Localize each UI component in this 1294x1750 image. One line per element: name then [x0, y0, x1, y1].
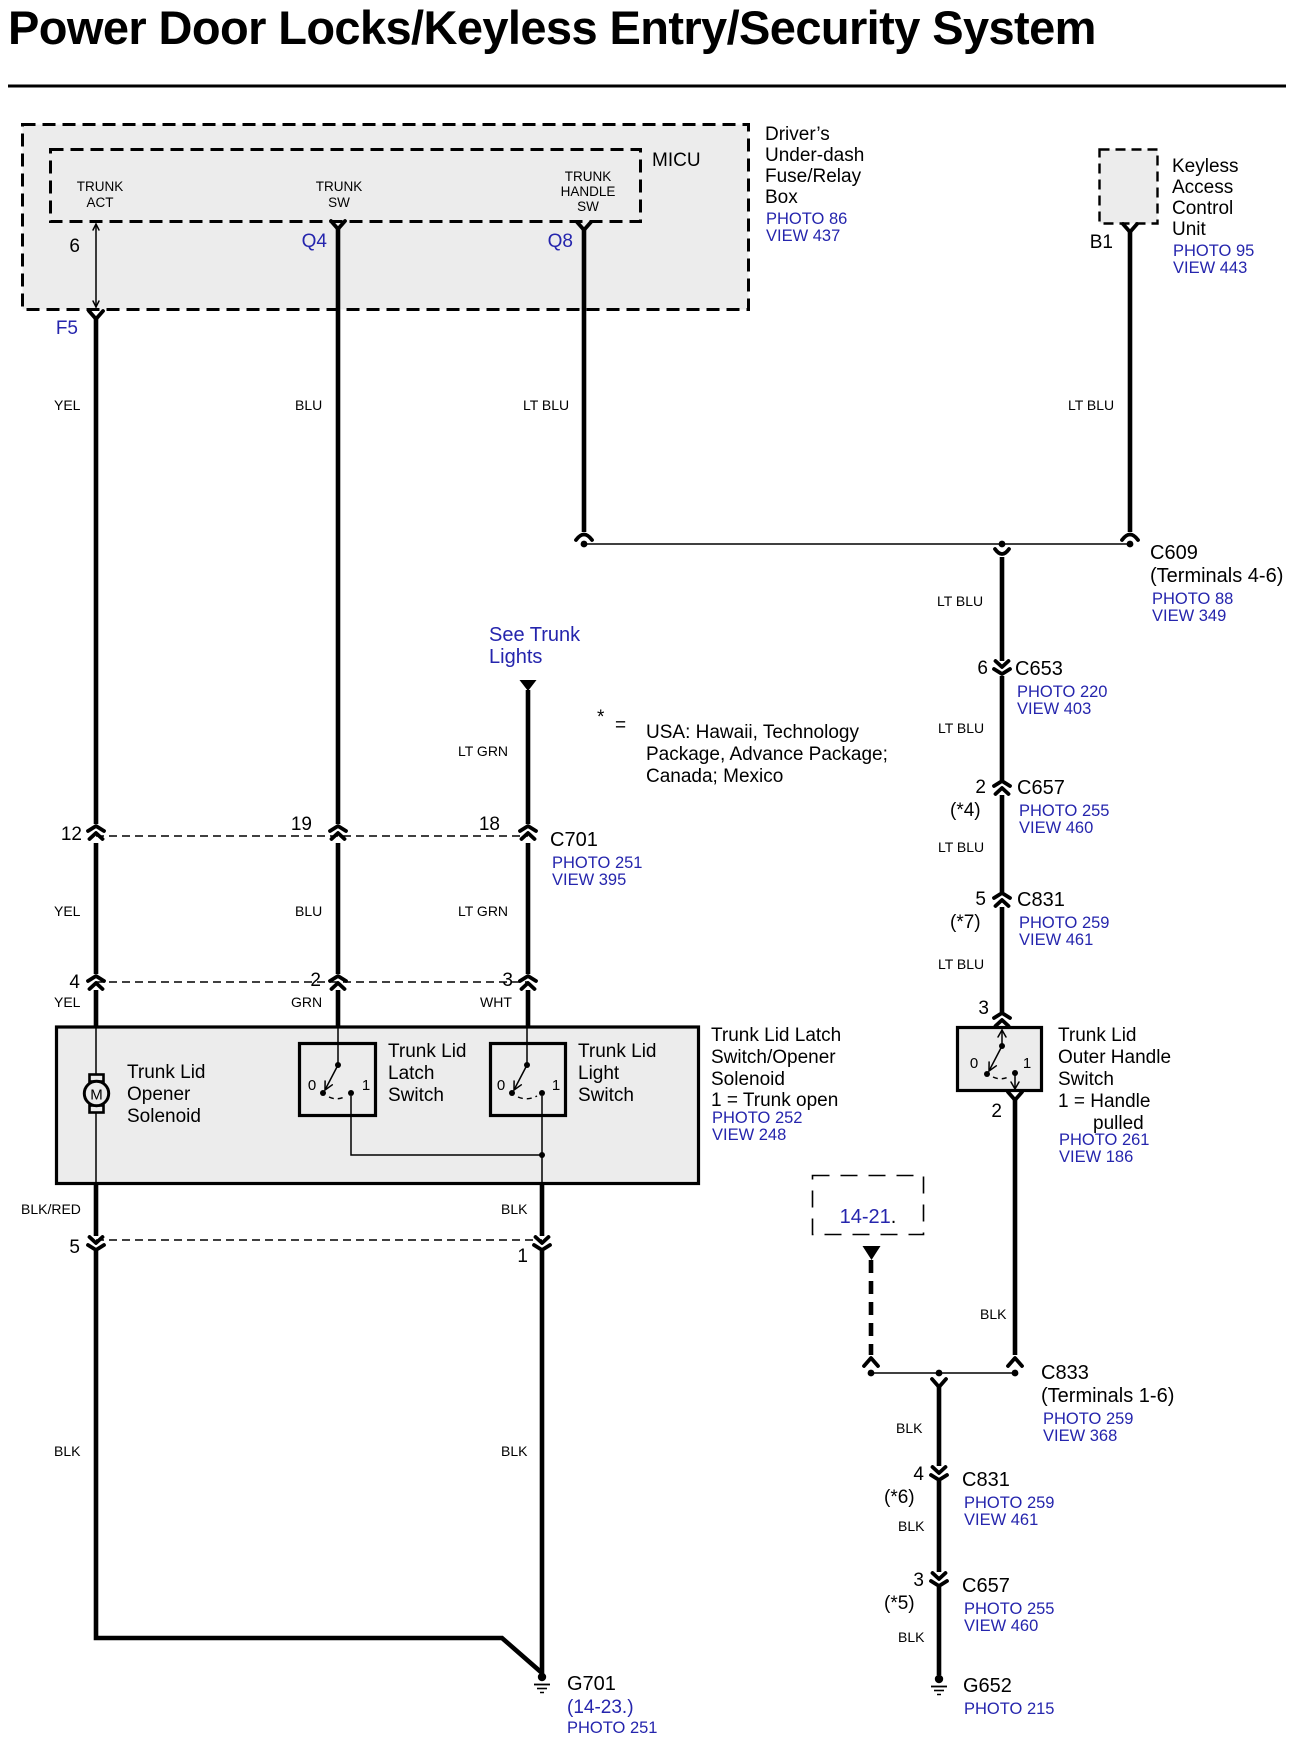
svg-text:VIEW 349: VIEW 349 — [1152, 607, 1226, 625]
svg-text:PHOTO 86: PHOTO 86 — [766, 210, 847, 228]
svg-text:TRUNK: TRUNK — [77, 179, 124, 194]
connector Q8 (Y) — [577, 222, 591, 230]
node C833 junction line — [871, 1372, 1015, 1374]
svg-text:PHOTO 88: PHOTO 88 — [1152, 590, 1233, 608]
svg-text:(Terminals 4-6): (Terminals 4-6) — [1150, 565, 1283, 587]
block reference 14-21 box — [813, 1176, 924, 1235]
wire BLU column — [336, 229, 341, 824]
svg-text:PHOTO 251: PHOTO 251 — [567, 1719, 657, 1737]
C701 dashed line — [96, 835, 528, 837]
wire BLK from handle switch — [1013, 1100, 1018, 1355]
svg-text:Switch: Switch — [578, 1085, 634, 1106]
svg-text:VIEW 460: VIEW 460 — [964, 1617, 1038, 1635]
svg-text:Trunk Lid Latch: Trunk Lid Latch — [711, 1025, 841, 1046]
handle switch common node — [999, 1043, 1005, 1049]
svg-text:1 = Trunk open: 1 = Trunk open — [711, 1090, 838, 1111]
svg-text:LT GRN: LT GRN — [458, 743, 508, 759]
connector pin 5 — [90, 1237, 103, 1243]
svg-text:BLU: BLU — [295, 903, 322, 919]
svg-text:LT BLU: LT BLU — [938, 956, 984, 972]
latch switch wire out — [351, 1096, 542, 1155]
wire LT GRN column — [526, 690, 531, 824]
svg-text:C657: C657 — [962, 1575, 1010, 1597]
svg-text:PHOTO 255: PHOTO 255 — [1019, 802, 1109, 820]
connector C831 pin 5 — [994, 893, 1010, 898]
handle switch dashed arc — [993, 1076, 1010, 1079]
svg-text:(*4): (*4) — [950, 800, 981, 821]
svg-text:GRN: GRN — [291, 994, 322, 1010]
ground G652 — [935, 1675, 943, 1683]
svg-text:Opener: Opener — [127, 1084, 191, 1105]
svg-text:Latch: Latch — [388, 1063, 434, 1084]
latch switch arm — [326, 1065, 338, 1088]
handle switch down arrow — [1014, 1073, 1016, 1089]
svg-text:Unit: Unit — [1172, 219, 1207, 240]
svg-text:(*7): (*7) — [950, 912, 981, 933]
svg-text:LT GRN: LT GRN — [458, 903, 508, 919]
svg-text:G701: G701 — [567, 1673, 616, 1695]
pins 4/2/3 dashed line — [96, 981, 528, 983]
svg-text:Trunk Lid: Trunk Lid — [1058, 1025, 1137, 1046]
svg-text:TRUNK: TRUNK — [565, 169, 612, 184]
svg-text:VIEW 368: VIEW 368 — [1043, 1427, 1117, 1445]
wire into motor (thin) — [95, 1028, 97, 1074]
svg-text:Under-dash: Under-dash — [765, 145, 864, 166]
motor M1 (trunk lid opener solenoid) — [90, 1075, 104, 1082]
svg-text:0: 0 — [970, 1055, 978, 1072]
svg-text:Trunk Lid: Trunk Lid — [388, 1041, 467, 1062]
svg-text:VIEW 460: VIEW 460 — [1019, 819, 1093, 837]
connector C831 pin 4 — [933, 1467, 946, 1473]
latch switch contact 0 — [320, 1090, 326, 1096]
wire BLK segment — [937, 1587, 942, 1675]
latch switch contact 1 — [348, 1090, 354, 1096]
svg-text:VIEW 248: VIEW 248 — [712, 1126, 786, 1144]
handle switch contact 1 — [1012, 1070, 1018, 1076]
svg-text:BLK: BLK — [896, 1420, 923, 1436]
svg-text:BLK: BLK — [980, 1306, 1007, 1322]
svg-text:PHOTO 255: PHOTO 255 — [964, 1600, 1054, 1618]
connector C609 terminal left — [576, 535, 592, 541]
svg-text:PHOTO 251: PHOTO 251 — [552, 854, 642, 872]
svg-text:BLK: BLK — [898, 1518, 925, 1534]
connector C701 pin 12 — [88, 826, 104, 831]
connector C653 pin 6 — [996, 661, 1009, 667]
svg-text:Switch/Opener: Switch/Opener — [711, 1047, 836, 1068]
svg-text:*: * — [597, 707, 605, 728]
svg-text:YEL: YEL — [54, 397, 81, 413]
node C609 junction line — [584, 543, 1130, 545]
svg-text:VIEW 403: VIEW 403 — [1017, 700, 1091, 718]
svg-text:PHOTO 259: PHOTO 259 — [1019, 914, 1109, 932]
svg-text:Driver’s: Driver’s — [765, 124, 830, 145]
svg-text:Control: Control — [1172, 198, 1233, 219]
svg-text:1 = Handle: 1 = Handle — [1058, 1091, 1150, 1112]
svg-text:See Trunk: See Trunk — [489, 624, 581, 646]
connector pin 3 — [520, 976, 536, 981]
svg-text:MICU: MICU — [652, 150, 701, 171]
svg-text:=: = — [615, 715, 626, 736]
trunk lid light switch SW2 box — [491, 1044, 566, 1116]
svg-text:WHT: WHT — [480, 994, 512, 1010]
connector pin 2 — [330, 976, 346, 981]
svg-text:VIEW 461: VIEW 461 — [964, 1511, 1038, 1529]
wire BLU segment — [336, 843, 341, 974]
svg-text:Trunk Lid: Trunk Lid — [578, 1041, 657, 1062]
svg-text:BLK: BLK — [501, 1201, 528, 1217]
svg-text:0: 0 — [497, 1077, 505, 1094]
light switch contact 0 — [509, 1090, 515, 1096]
see trunk lights arrow — [520, 680, 537, 691]
wire out of motor (thin) — [95, 1112, 97, 1184]
svg-text:C657: C657 — [1017, 777, 1065, 799]
connector Q4 (Y) — [331, 221, 345, 229]
svg-text:G652: G652 — [963, 1675, 1012, 1697]
svg-text:2: 2 — [991, 1101, 1002, 1122]
light switch common node — [524, 1062, 530, 1068]
svg-text:C833: C833 — [1041, 1362, 1089, 1384]
svg-text:Package, Advance Package;: Package, Advance Package; — [646, 744, 888, 765]
trunk lid outer handle switch SW3 box — [958, 1028, 1042, 1091]
svg-text:Q8: Q8 — [548, 231, 573, 252]
svg-text:TRUNK: TRUNK — [316, 179, 363, 194]
svg-text:Box: Box — [765, 187, 798, 208]
svg-text:BLK: BLK — [898, 1629, 925, 1645]
latch switch dashed arc — [329, 1096, 346, 1099]
handle switch up arrow — [1001, 1030, 1003, 1046]
svg-text:C831: C831 — [1017, 889, 1065, 911]
wire YEL column — [94, 319, 99, 824]
svg-text:Trunk Lid: Trunk Lid — [127, 1062, 206, 1083]
svg-text:Solenoid: Solenoid — [127, 1106, 201, 1127]
svg-text:14-21.: 14-21. — [840, 1206, 897, 1228]
svg-text:5: 5 — [69, 1237, 80, 1258]
trunk lid solenoid/switch assembly box — [57, 1027, 699, 1184]
svg-text:SW: SW — [577, 199, 599, 214]
svg-text:Power Door Locks/Keyless Entry: Power Door Locks/Keyless Entry/Security … — [8, 1, 1096, 54]
svg-text:LT BLU: LT BLU — [523, 397, 569, 413]
svg-text:VIEW 395: VIEW 395 — [552, 871, 626, 889]
svg-text:Light: Light — [578, 1063, 620, 1084]
ground G701 — [538, 1673, 546, 1681]
svg-text:C609: C609 — [1150, 542, 1198, 564]
svg-text:1: 1 — [362, 1077, 370, 1094]
svg-text:1: 1 — [1023, 1055, 1031, 1072]
svg-text:VIEW 443: VIEW 443 — [1173, 259, 1247, 277]
svg-text:YEL: YEL — [54, 903, 81, 919]
svg-text:VIEW 461: VIEW 461 — [1019, 931, 1093, 949]
connector pin 1 — [536, 1237, 549, 1243]
svg-text:19: 19 — [291, 814, 312, 835]
svg-text:Canada; Mexico: Canada; Mexico — [646, 766, 783, 787]
svg-text:3: 3 — [913, 1570, 924, 1591]
svg-text:VIEW 437: VIEW 437 — [766, 227, 840, 245]
svg-text:Switch: Switch — [388, 1085, 444, 1106]
arrow from 14-21 box — [863, 1246, 881, 1260]
keyless access control unit box — [1100, 150, 1158, 224]
svg-text:2: 2 — [310, 970, 321, 991]
handle switch contact 0 — [984, 1071, 990, 1077]
wire BLK/RED below box — [94, 1184, 99, 1236]
svg-text:F5: F5 — [56, 318, 78, 339]
svg-text:LT BLU: LT BLU — [938, 839, 984, 855]
light switch dashed arc — [518, 1096, 537, 1099]
connector C833 terminal middle (Y) — [932, 1379, 946, 1387]
light switch wire out (thin) — [541, 1096, 543, 1184]
svg-text:(14-23.): (14-23.) — [567, 1697, 634, 1718]
svg-text:Q4: Q4 — [302, 231, 328, 252]
svg-text:(Terminals 1-6): (Terminals 1-6) — [1041, 1385, 1174, 1407]
svg-text:(*6): (*6) — [884, 1487, 915, 1508]
connector pin 2 (Y) below handle switch — [1008, 1092, 1022, 1100]
dashed wire from 14-21 — [869, 1260, 874, 1355]
svg-text:PHOTO 259: PHOTO 259 — [1043, 1410, 1133, 1428]
rule — [8, 85, 1286, 88]
svg-text:12: 12 — [61, 824, 82, 845]
light switch arm — [515, 1065, 527, 1088]
connector C609 terminal middle — [995, 549, 1009, 554]
pin 6 arrow line — [95, 224, 97, 307]
svg-text:Lights: Lights — [489, 646, 542, 668]
svg-text:BLK/RED: BLK/RED — [21, 1201, 81, 1217]
latch switch common node — [335, 1062, 341, 1068]
svg-text:Access: Access — [1172, 177, 1233, 198]
svg-text:18: 18 — [479, 814, 500, 835]
svg-text:Solenoid: Solenoid — [711, 1069, 785, 1090]
svg-text:Fuse/Relay: Fuse/Relay — [765, 166, 862, 187]
connector B1 (Y) — [1123, 224, 1137, 232]
svg-text:HANDLE: HANDLE — [561, 184, 616, 199]
latch switch wire in — [337, 1028, 339, 1065]
svg-text:BLK: BLK — [501, 1443, 528, 1459]
wire BLK segment — [937, 1481, 942, 1572]
svg-text:Switch: Switch — [1058, 1069, 1114, 1090]
svg-text:5: 5 — [975, 889, 986, 910]
light switch wire in — [526, 1028, 528, 1065]
svg-text:LT BLU: LT BLU — [937, 593, 983, 609]
wire BLK bottom right — [540, 1251, 545, 1674]
wire LT BLU right column — [1000, 557, 1005, 661]
svg-text:4: 4 — [69, 972, 80, 993]
connector pin 4 — [88, 976, 104, 981]
svg-text:6: 6 — [977, 658, 988, 679]
node junction — [539, 1152, 545, 1158]
wire LT BLU column from Q8 — [582, 230, 587, 532]
connector C701 pin 19 — [330, 826, 346, 831]
wire LT BLU segment — [1000, 907, 1005, 1012]
wire LT GRN segment — [526, 843, 531, 974]
svg-text:C653: C653 — [1015, 658, 1063, 680]
svg-text:1: 1 — [517, 1246, 528, 1267]
svg-text:3: 3 — [978, 998, 989, 1019]
connector F5 (Y) — [89, 311, 103, 319]
light switch contact 1 — [539, 1090, 545, 1096]
svg-text:C701: C701 — [550, 829, 598, 851]
svg-text:Keyless: Keyless — [1172, 156, 1239, 177]
svg-text:USA: Hawaii, Technology: USA: Hawaii, Technology — [646, 722, 859, 743]
connector C833 terminal left (inverted Y) — [864, 1358, 878, 1366]
wire YEL to box — [94, 990, 99, 1028]
svg-text:PHOTO 259: PHOTO 259 — [964, 1494, 1054, 1512]
svg-text:YEL: YEL — [54, 994, 81, 1010]
handle switch arm — [990, 1046, 1002, 1069]
svg-text:LT BLU: LT BLU — [1068, 397, 1114, 413]
svg-text:0: 0 — [308, 1077, 316, 1094]
svg-text:BLU: BLU — [295, 397, 322, 413]
fuse/relay box (MICU outer) — [23, 125, 749, 310]
svg-text:M: M — [90, 1087, 103, 1104]
svg-text:PHOTO 95: PHOTO 95 — [1173, 242, 1254, 260]
connector C657 pin 3 — [933, 1573, 946, 1579]
svg-text:(*5): (*5) — [884, 1593, 915, 1614]
svg-text:2: 2 — [975, 777, 986, 798]
connector C657 pin 2 — [994, 781, 1010, 786]
connector C609 terminal right — [1122, 535, 1138, 541]
wire GRN to box — [336, 990, 341, 1028]
svg-text:PHOTO 215: PHOTO 215 — [964, 1700, 1054, 1718]
wire LT BLU from B1 — [1128, 232, 1133, 532]
svg-text:6: 6 — [69, 236, 80, 257]
wire WHT to box — [526, 990, 531, 1028]
wire BLK segment — [937, 1387, 942, 1466]
wire BLK below box — [540, 1184, 545, 1236]
svg-text:BLK: BLK — [54, 1443, 81, 1459]
svg-text:3: 3 — [502, 970, 513, 991]
connector C701 pin 18 — [520, 826, 536, 831]
svg-text:C831: C831 — [962, 1469, 1010, 1491]
svg-text:SW: SW — [328, 195, 350, 210]
svg-text:Outer Handle: Outer Handle — [1058, 1047, 1171, 1068]
trunk lid latch switch SW1 box — [300, 1044, 376, 1116]
wire BLK bottom left run — [96, 1251, 542, 1673]
svg-text:LT BLU: LT BLU — [938, 720, 984, 736]
svg-text:4: 4 — [913, 1464, 924, 1485]
connector C833 terminal right (inverted Y) — [1008, 1358, 1022, 1366]
svg-text:PHOTO 252: PHOTO 252 — [712, 1109, 802, 1127]
svg-text:1: 1 — [552, 1077, 560, 1094]
svg-text:ACT: ACT — [87, 195, 114, 210]
wire LT BLU segment — [1000, 795, 1005, 892]
svg-text:PHOTO 261: PHOTO 261 — [1059, 1131, 1149, 1149]
wire YEL segment — [94, 843, 99, 974]
MICU inner box — [51, 150, 641, 222]
pins 5/1 dashed line — [96, 1239, 542, 1241]
svg-text:B1: B1 — [1090, 232, 1113, 253]
svg-text:PHOTO 220: PHOTO 220 — [1017, 683, 1107, 701]
connector pin 3 into handle switch — [994, 1013, 1010, 1018]
svg-text:VIEW 186: VIEW 186 — [1059, 1148, 1133, 1166]
wire LT BLU segment — [1000, 676, 1005, 780]
